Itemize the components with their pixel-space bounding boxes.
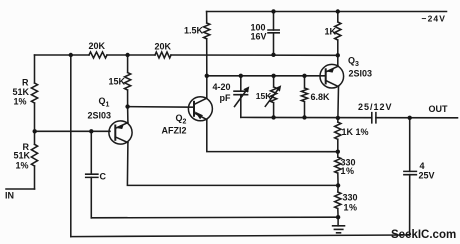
resistor 330 1% (lower) xyxy=(335,185,341,217)
node dot x70.8/y55 xyxy=(69,53,73,57)
resistor 1.5K xyxy=(204,23,210,39)
node dot 15Kvar bottom xyxy=(271,115,275,119)
capacitor 100/16V xyxy=(268,11,279,54)
svg-text:330: 330 xyxy=(343,193,358,203)
wire OUT rail y117.5 xyxy=(241,116,458,118)
ground xyxy=(333,217,345,233)
svg-text:1%: 1% xyxy=(14,97,27,107)
wire C branch vertical xyxy=(90,131,92,218)
capacitor 4/25V xyxy=(404,118,417,236)
node dot 6.8K bottom xyxy=(302,115,306,119)
capacitor 25/12V xyxy=(372,113,376,123)
transistor Q2 xyxy=(188,97,212,121)
node dot 15Kvar top xyxy=(271,74,275,78)
svg-text:C: C xyxy=(100,172,107,182)
svg-text:1K 1%: 1K 1% xyxy=(342,127,369,137)
svg-text:20K: 20K xyxy=(155,42,172,52)
wire Q2 emitter down and right to divider y151.6 xyxy=(207,120,338,152)
node dot divider tap 1 xyxy=(336,150,340,154)
svg-text:OUT: OUT xyxy=(429,104,449,114)
resistor 15K variable xyxy=(265,76,281,118)
resistor 15K (vertical) xyxy=(125,55,131,107)
wire left vertical upper xyxy=(34,55,36,131)
node dot mid rail left xyxy=(205,74,209,78)
svg-text:6.8K: 6.8K xyxy=(311,92,331,102)
wire -24V top rail xyxy=(207,11,447,13)
node dot OUT rail / Q3 collector xyxy=(336,116,340,120)
svg-text:pF: pF xyxy=(220,93,231,103)
node dot 1K top xyxy=(336,9,340,13)
svg-text:16V: 16V xyxy=(251,32,267,42)
node dot divider bottom xyxy=(336,215,340,219)
svg-text:1K: 1K xyxy=(325,27,337,37)
node dot 4/25V top xyxy=(408,116,412,120)
node dot C top xyxy=(89,129,93,133)
wire C to divider y217.5 xyxy=(91,216,338,219)
resistor 6.8K xyxy=(301,76,307,118)
svg-text:2Sl03: 2Sl03 xyxy=(349,69,373,79)
capacitor C xyxy=(86,174,98,177)
node dot Q1 base left xyxy=(33,129,37,133)
wire bottom rail xyxy=(71,235,410,237)
svg-text:−24V: −24V xyxy=(422,14,447,24)
svg-text:4: 4 xyxy=(420,161,425,171)
svg-text:15K: 15K xyxy=(109,77,126,87)
svg-text:1.5K: 1.5K xyxy=(184,26,204,36)
svg-text:2Sl03: 2Sl03 xyxy=(88,111,112,121)
wire Q3 collector down xyxy=(337,87,340,118)
node dot 100/16V bottom xyxy=(271,53,275,57)
transistor Q1 xyxy=(109,107,132,145)
resistor 1K 1% xyxy=(335,118,341,152)
wire Q1 base xyxy=(35,130,111,132)
capacitor 4-20pF variable xyxy=(234,76,249,118)
wire Q1 collector link to Q2 base xyxy=(128,106,194,109)
node dot 6.8K top xyxy=(302,74,306,78)
wire Q2 collector up to mid rail xyxy=(206,76,208,98)
resistor 330 1% (upper) xyxy=(335,152,341,186)
node dot divider tap 2 xyxy=(336,183,340,187)
svg-text:25/12V: 25/12V xyxy=(358,102,393,112)
svg-text:1%: 1% xyxy=(16,161,29,171)
wire mid rail y75.8 xyxy=(207,75,326,77)
wire 1.5K branch vertical x206.7 xyxy=(206,12,208,76)
svg-text:15K: 15K xyxy=(256,91,272,101)
wire second vertical x70.8 xyxy=(70,55,72,237)
transistor Q3 xyxy=(320,64,344,88)
resistor 1K (top) xyxy=(335,12,341,67)
svg-text:51K: 51K xyxy=(13,87,30,97)
wire IN stub xyxy=(6,188,35,190)
svg-text:1%: 1% xyxy=(344,203,358,213)
resistor 20K (right) xyxy=(155,52,171,58)
svg-text:20K: 20K xyxy=(89,41,106,51)
svg-text:4-20: 4-20 xyxy=(213,82,231,92)
node dot 1K bottom xyxy=(336,53,340,57)
node dot 15K top xyxy=(125,53,129,57)
svg-text:51K: 51K xyxy=(14,151,31,161)
node dot 4-20pF top xyxy=(239,74,243,78)
svg-text:1%: 1% xyxy=(341,166,355,176)
svg-text:25V: 25V xyxy=(419,171,435,181)
resistor R 51K 1% (upper) xyxy=(31,83,37,103)
svg-text:R: R xyxy=(22,78,29,88)
wire left vertical lower xyxy=(34,131,36,189)
wire Q1 collector down and right y185.3 xyxy=(127,143,338,186)
node dot 15K bottom xyxy=(125,104,129,108)
wire node-A horizontal y55 xyxy=(35,54,338,56)
resistor R 51K 1% (lower) xyxy=(31,144,37,166)
svg-text:SeekIC.com: SeekIC.com xyxy=(391,229,456,241)
svg-text:IN: IN xyxy=(5,191,14,201)
resistor 20K (left) xyxy=(89,52,107,58)
svg-text:AFZl2: AFZl2 xyxy=(162,126,187,136)
node dot 100/16V top xyxy=(271,9,275,13)
